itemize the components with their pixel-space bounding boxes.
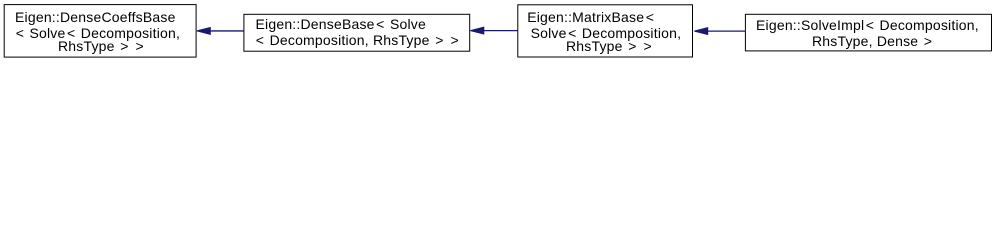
inheritance arrow 2 (MatrixBase -> DenseBase) [470, 27, 517, 34]
node 1 text: Eigen::DenseCoeffsBase< Solve< Decomposition, RhsType > > [15, 10, 176, 24]
node 4 text: Eigen::SolveImpl< Decomposition, RhsType, Dense > [756, 18, 979, 32]
node 2 text: Eigen::DenseBase< Solve< Decomposition, RhsType > > [256, 17, 426, 31]
box Eigen::DenseBase node border [244, 14, 470, 51]
inheritance arrow 3 (SolveImpl -> MatrixBase) [694, 28, 745, 35]
box Eigen::DenseCoeffsBase node border [4, 5, 196, 58]
inheritance arrow 1 (DenseBase -> DenseCoeffsBase) [197, 28, 244, 35]
node 3 text: Eigen::MatrixBase< Solve< Decomposition, RhsType > > [527, 10, 655, 24]
box Eigen::SolveImpl node border [745, 14, 991, 51]
wires and arrows layer [0, 0, 999, 67]
box Eigen::MatrixBase node border [518, 5, 693, 57]
